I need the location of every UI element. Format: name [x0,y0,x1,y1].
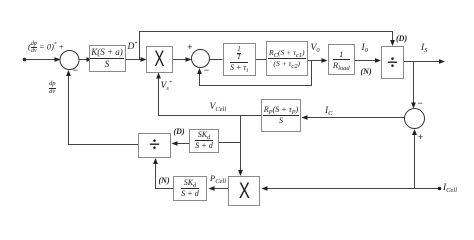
multiplier X2 [228,176,260,206]
wire VCell branch to block SKd top [219,142,241,144]
summing junction S2 [192,50,210,68]
wire divider U1 output IS [404,59,445,64]
divider U2 [138,133,171,158]
wire block G1 to block G2 [256,59,267,61]
label Vs* [161,81,172,92]
label VCell [210,103,227,113]
label minus at S1 [73,66,78,75]
wire block SKd bottom to divider U2 (N) input [153,158,173,189]
wire block K to multiplier X1 with D* node [126,57,147,62]
block SKd/(S+d) bottom [173,176,207,201]
wire D* feedback to divider U1 (D) input [140,32,395,60]
label PCell [210,174,226,183]
block G2 Rc(S+tau_c1)/(S+tau_c2) [266,41,308,76]
wire input to summing junction S1 [25,57,61,62]
wire multiplier X2 output PCell to block SKd bottom [209,186,229,191]
summing junction S3 [405,109,425,129]
label (D) at divider U2 [174,128,185,136]
wire multiplier X1 to summing junction S2 [173,57,192,62]
label reference input (dp/dv = 0)* + [28,41,64,54]
block 1/Rload [328,44,356,75]
wire V0 feedback to S2 minus input [197,61,311,86]
label IS [421,44,427,54]
wire block G2 to block 1/Rload with node V0 [308,58,328,63]
label ICell [443,184,457,194]
label IC [325,107,333,117]
multiplier X1 [146,46,174,73]
label I0 [362,44,368,54]
wire IS branch down to summing junction S3 [411,62,416,109]
label (N) at divider U1 [361,68,372,76]
wire block SKd top to divider U2 (D) input [172,141,190,146]
input terminal dot [23,58,27,62]
label plus at S2 [187,43,192,52]
wire ICell input line to multiplier X2 [262,186,440,191]
wire S3 output IC to block RP [302,115,405,120]
ICell terminal dot [438,187,442,191]
wire ICell branch up to S3 plus input [412,129,417,189]
label plus at S3 [418,133,423,142]
label (D) at divider U1 [396,35,407,43]
wire divider U2 output dp/dv to S1 minus input [66,70,138,145]
block RP(S+tau_P)/S [261,99,301,132]
wire VCell branch down to multiplier X2 [238,116,243,177]
label D* [128,42,138,53]
label V0 [311,44,320,54]
divider U1 [381,46,404,79]
label minus at S2 [204,66,209,75]
label minus at S3 [418,99,423,108]
label (N) at divider U2 [159,177,170,185]
wire VCell from block RP to X1 lower input Vs [156,73,261,116]
block SKd/(S+d) top [189,129,219,153]
wire block 1/Rload to divider U1 (N) input [355,58,381,63]
wire S2 to block G1 [210,59,223,61]
summing junction S1 [60,51,79,70]
wire S1 to block K [79,57,93,62]
block K(S+a)/S [89,45,126,72]
block G1 1/T/(S+tau_i) [223,43,256,76]
label dp/dv on feedback wire [49,81,56,95]
